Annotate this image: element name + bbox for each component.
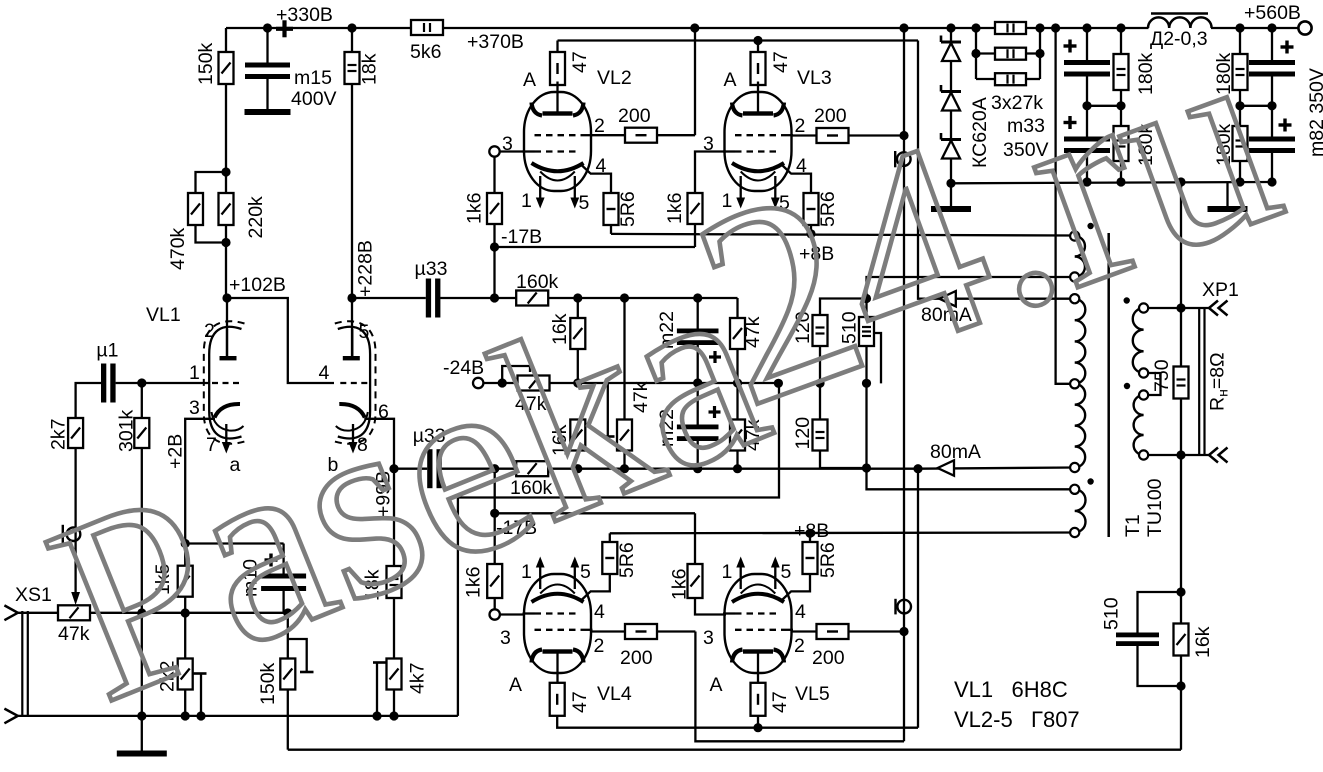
junction at (866.5,298.5): [862, 294, 871, 303]
connector XP1 pin1: [1209, 301, 1228, 316]
junction at (1181,455): [1176, 450, 1185, 459]
pin labels tube VL4 G807: [500, 561, 632, 705]
junction at (1087,182): [1082, 177, 1091, 186]
wire net-B lower: [917, 469, 919, 728]
wire 80mA lower wire: [918, 468, 1075, 469]
wire 47 VL2 top lead: [556, 41, 558, 54]
tap primary top: [1070, 294, 1079, 303]
junction at (820,383.3): [815, 379, 824, 388]
wire 47k-lr: [736, 383, 738, 469]
junction at (1121,28): [1116, 23, 1125, 32]
wire 1k6-VL4 to grid circle: [494, 598, 496, 610]
wire net-A bus: [903, 28, 905, 741]
wire 18k-low to 4k7: [393, 598, 395, 659]
choke D2-0.3: [1148, 14, 1212, 51]
resistor 160k upper: [516, 271, 559, 306]
connector XP1 pin2: [1209, 448, 1228, 463]
svg-text:m82 350V: m82 350V: [1306, 68, 1323, 157]
resistor 160k lower: [510, 461, 553, 499]
wire zener chain: [950, 28, 952, 183]
svg-text:2: 2: [794, 635, 805, 657]
phase dot S1: [1087, 223, 1093, 229]
svg-text:4: 4: [795, 601, 806, 623]
wire VL3 pin2 to 200: [792, 134, 817, 136]
wire m22-up top: [697, 298, 699, 329]
svg-text:VL2: VL2: [597, 67, 632, 89]
label -17V upper: [501, 226, 542, 248]
phase dot sec2: [1124, 383, 1130, 389]
svg-text:VL5: VL5: [795, 683, 830, 705]
wire 47k-h trimmer tap: [502, 366, 530, 383]
wire -17V lower row: [495, 513, 695, 564]
junction at (951,183.3): [946, 179, 955, 188]
resistor 5k6: [410, 20, 443, 63]
junction at (737.5,383): [733, 378, 742, 387]
transformer T1 core: [1107, 233, 1110, 537]
wire VL3 5R6 bottom: [810, 225, 812, 234]
wire S1 return elbow: [867, 277, 1075, 299]
svg-text:3: 3: [500, 627, 511, 649]
wire +8V lower row: [610, 531, 1075, 534]
junction at (976,53.5): [971, 49, 980, 58]
junction at (951,28): [946, 23, 955, 32]
capacitor m22 upper plus: [709, 351, 721, 363]
transformer T1 primary main: [1075, 299, 1086, 468]
wire m82 stack: [1271, 28, 1273, 182]
wire 2k7 bottom / pot wiper shaft: [74, 448, 76, 596]
tap secondary 1a: [1139, 303, 1148, 312]
capacitor u33 upper: [426, 279, 441, 318]
tap S1 bottom: [1070, 272, 1079, 281]
resistor 750: [1151, 359, 1189, 398]
resistor 1k6 VL4: [463, 564, 503, 598]
svg-text:A: A: [509, 674, 522, 696]
resistor 470k: [167, 193, 203, 270]
capacitor m82a plus: [1281, 41, 1294, 54]
svg-text:2: 2: [594, 635, 605, 657]
junction at (810,533.3): [805, 529, 814, 538]
svg-text:VL2-5 Г807: VL2-5 Г807: [954, 707, 1080, 732]
svg-text:5: 5: [579, 192, 590, 214]
resistor 150k: [195, 42, 234, 85]
junction at (811,233.9): [806, 229, 815, 238]
svg-text:1: 1: [722, 561, 733, 583]
wire +102V to grid4: [227, 298, 334, 383]
resistor 5R6 VL4: [602, 542, 638, 578]
pin labels VL1: [146, 304, 389, 476]
resistor 2k2 trim: [157, 659, 193, 693]
terminal VL2 grid: [489, 146, 499, 156]
resistor 27k b: [995, 48, 1026, 60]
resistor 200 VL5: [812, 624, 849, 669]
resistor 18k lower: [362, 566, 402, 601]
svg-text:47: 47: [569, 691, 591, 713]
wire VL4 grid wire: [500, 613, 524, 615]
phase dot sec1: [1124, 297, 1130, 303]
tap primary center: [1070, 379, 1079, 388]
wire m22-low top: [697, 383, 699, 425]
wire feedback bus x=1181: [1180, 182, 1182, 750]
junction at (352,298): [347, 293, 356, 302]
ground m15: [245, 77, 291, 115]
wire m15 lead: [266, 28, 268, 63]
junction at (697.7,298): [693, 293, 702, 302]
wire VL4 5R6 top: [609, 533, 611, 542]
resistor 5R6 VL3: [804, 191, 840, 227]
label m33 350V: [1003, 115, 1049, 161]
svg-text:400V: 400V: [291, 88, 337, 110]
svg-text:XS1: XS1: [15, 584, 52, 606]
wire top rail +330V/+370V: [226, 27, 1305, 29]
zener VD3 KS620A: [941, 133, 961, 159]
svg-text:4: 4: [594, 601, 605, 623]
wire 47k-mid bottom: [623, 451, 625, 469]
wire 120-low top: [819, 383, 821, 419]
junction at (904,28): [899, 23, 908, 32]
connector XS1 pin2: [4, 709, 17, 724]
resistor 47k trim mid: [617, 381, 652, 450]
label +8V upper: [799, 243, 834, 265]
wire 47k-ur top lead: [736, 298, 738, 318]
wire long bottom bus: [288, 749, 1181, 751]
resistor 150k trim: [257, 659, 295, 706]
junction at (904,135.5): [899, 131, 908, 140]
junction at (394,468.7): [389, 464, 398, 473]
resistor 16k lower: [549, 420, 585, 457]
tube VL1 triode b: [335, 321, 376, 453]
junction at (697.7,383): [693, 378, 702, 387]
svg-text:5R6: 5R6: [617, 191, 639, 227]
junction at (141.8,716): [137, 711, 146, 720]
capacitor filter C1b plus: [1064, 116, 1077, 129]
wire XS1 pin1 to pot: [18, 612, 58, 614]
wiper arrowhead: [71, 592, 80, 605]
wire VL4 cathode elbow: [590, 574, 610, 591]
svg-text:510: 510: [1101, 597, 1123, 630]
junction at (267.5,28): [263, 23, 272, 32]
resistor 16k upper: [549, 313, 585, 349]
junction at (141.8,383): [137, 378, 146, 387]
svg-text:+560В: +560В: [1244, 2, 1301, 24]
wire net-B upper: [918, 41, 1075, 299]
svg-text:1k6: 1k6: [464, 193, 486, 224]
terminal -24V: [443, 357, 484, 388]
zener VD2 KS620A: [941, 85, 961, 111]
capacitor u33 lower label: [413, 425, 446, 447]
junction at (494.7,513.3): [490, 509, 499, 518]
svg-text:80mA: 80mA: [930, 441, 981, 463]
wire VL5 47 bottom: [757, 716, 759, 728]
junction at (918,468.7): [913, 464, 922, 473]
resistor 1k6 VL5: [669, 564, 703, 600]
resistor 1k6 VL3: [664, 193, 703, 224]
capacitor m15 plus: [276, 20, 293, 37]
junction at (866.5,468): [862, 463, 871, 472]
capacitor m22 lower: [656, 409, 719, 447]
tap S1 top: [1070, 231, 1079, 240]
svg-text:47: 47: [770, 51, 792, 73]
svg-text:150k: 150k: [195, 42, 217, 85]
net tag Yu input: [63, 525, 80, 544]
junction at (1240,182): [1235, 177, 1244, 186]
label +102V: [229, 274, 286, 296]
wire m22-low bottom: [697, 441, 699, 469]
junction at (1040,53.5): [1035, 49, 1044, 58]
wire secondary bottom out: [1144, 454, 1210, 456]
label KS620A: [969, 97, 991, 168]
wire m10 bottom: [282, 591, 284, 613]
junction at (1121,105.8): [1116, 101, 1125, 110]
label +370V: [467, 31, 524, 53]
resistor 180k c2 up: [1213, 52, 1248, 95]
wire VL5 5R6: [791, 533, 811, 591]
pin labels tube VL3 G807: [703, 67, 832, 214]
tap S4 bottom: [1070, 528, 1079, 537]
svg-text:1: 1: [521, 190, 532, 212]
junction at (502.2,383): [498, 378, 507, 387]
zener VD1 KS620A: [941, 36, 961, 62]
svg-text:+330В: +330В: [276, 4, 333, 26]
svg-text:3: 3: [703, 627, 714, 649]
wire cap mid link 2: [1240, 105, 1272, 107]
wire 510 bottom: [865, 346, 867, 383]
resistor 180k c2 low: [1213, 123, 1248, 166]
resistor 1k6 VL2: [464, 193, 503, 224]
wire 150k-trim bottom to bottom bus: [287, 690, 289, 750]
svg-text:5k6: 5k6: [410, 41, 441, 63]
wire XS1 cable pair: [22, 611, 28, 716]
label +99V: [373, 471, 395, 517]
wire 1k5 to 2k2: [184, 597, 186, 659]
wire VL5 grid wire: [695, 598, 726, 615]
wire m22-up bottom: [697, 345, 699, 383]
resistor 2k7: [48, 418, 84, 450]
junction at (494.7,468.7): [490, 464, 499, 473]
junction at (1272,28): [1267, 23, 1276, 32]
label T1 TU100: [1122, 478, 1166, 537]
wire center tap feed: [1056, 28, 1075, 384]
tube VL2 G807: [523, 82, 593, 209]
wire 2k2 trimmer tap: [194, 674, 207, 716]
svg-text:µ33: µ33: [415, 258, 448, 280]
wire secondary series jog: [1144, 373, 1161, 395]
svg-text:16k: 16k: [1192, 626, 1214, 658]
resistor 220k: [219, 193, 268, 239]
junction at (185.2,716): [181, 711, 190, 720]
wire 18k column (x=352): [351, 28, 353, 298]
resistor 5R6 VL2: [604, 191, 640, 227]
wire +99V node to cap: [394, 468, 427, 470]
wire mid feedback riser: [458, 383, 779, 716]
svg-text:+370В: +370В: [467, 31, 524, 53]
svg-text:A: A: [710, 674, 723, 696]
wire VL2 pin2 to 200: [591, 134, 625, 136]
svg-text:T1: T1: [1122, 514, 1144, 537]
wire VL3 grid wire: [695, 152, 726, 194]
wire 301k bottom to pot node: [141, 448, 143, 613]
svg-text:470k: 470k: [167, 227, 189, 270]
svg-text:5: 5: [781, 561, 792, 583]
wire m10 top row: [185, 544, 283, 574]
junction at (577.8,298): [573, 293, 582, 302]
resistor 47k lower right: [730, 419, 764, 451]
tap S4 top: [1070, 485, 1079, 494]
svg-text:Rн=8Ω: Rн=8Ω: [1207, 352, 1231, 411]
label XP1: [1202, 279, 1239, 301]
junction at (377,716): [372, 711, 381, 720]
label -17V lower: [496, 517, 537, 539]
wire 4k7 trimmer tap: [373, 663, 386, 716]
junction at (352,28): [347, 23, 356, 32]
tube VL3 G807: [723, 82, 793, 209]
label tube types: [954, 677, 1080, 732]
tube VL5 G807: [723, 557, 793, 684]
wire 47 VL3 top lead: [757, 41, 759, 54]
label Rn=8ohm: [1207, 352, 1231, 411]
wire 180k col1: [1120, 28, 1122, 182]
resistor 5R6 VL5: [803, 542, 840, 578]
svg-text:200: 200: [620, 647, 653, 669]
wire VL2 cathode elbow: [590, 174, 611, 193]
resistor 47 VL5: [751, 683, 792, 716]
svg-text:3: 3: [502, 133, 513, 155]
wire anode2 to upper rail: [352, 297, 426, 299]
label +330V: [276, 4, 333, 26]
tap primary bottom: [1070, 463, 1079, 472]
junction at (201,716): [196, 711, 205, 720]
svg-text:A: A: [724, 69, 737, 91]
label +8V lower: [794, 520, 829, 542]
pin labels tube VL2 G807: [502, 67, 632, 214]
svg-text:5R6: 5R6: [817, 542, 839, 578]
capacitor m22 lower plus: [709, 406, 721, 418]
ground PSU right: [1208, 206, 1248, 212]
resistor 47 VL3: [751, 51, 793, 85]
resistor 4k7 trim: [387, 659, 429, 695]
tube VL1 triode a: [204, 321, 245, 453]
wire 16k-up to mid: [577, 349, 579, 383]
connector XS1 pin1: [4, 605, 17, 620]
resistor 47k upper right: [730, 316, 764, 349]
wire VL4/VL5 anode bus: [557, 716, 918, 728]
junction at (624.5,298): [620, 293, 629, 302]
wire second rail to VL2/VL3 anode resistors: [558, 39, 919, 41]
junction at (394,716): [389, 711, 398, 720]
wire VL5 pin2 to 200: [792, 630, 817, 632]
capacitor m10: [240, 559, 307, 597]
svg-text:+228В: +228В: [355, 240, 377, 297]
junction at (1087,28): [1082, 23, 1091, 32]
terminal VL4 grid: [490, 609, 500, 619]
wire S4 top elbow: [867, 468, 1075, 489]
capacitor u1: [101, 364, 116, 403]
resistor 180k c1 up: [1114, 52, 1158, 95]
resistor 510 tapped: [839, 311, 875, 346]
junction at (577.8,383): [573, 378, 582, 387]
label +228V: [355, 240, 377, 297]
capacitor filter C1b: [1064, 137, 1110, 154]
svg-text:VL3: VL3: [797, 67, 832, 89]
svg-text:µ1: µ1: [96, 340, 118, 362]
wire 150k column: [225, 28, 227, 192]
wire lower rail to -17V low: [494, 469, 496, 514]
wire VL2 grid column: [493, 157, 495, 194]
svg-text:VL4: VL4: [597, 683, 632, 705]
wire pot node down to ground: [141, 613, 143, 716]
junction at (866.5,383.3): [862, 379, 871, 388]
junction at (1272,182): [1267, 177, 1276, 186]
junction at (758,40.5): [753, 36, 762, 45]
junction at (904,631.5): [899, 627, 908, 636]
ground main: [117, 716, 167, 757]
capacitor m82b: [1249, 68, 1323, 157]
wire 1k6-VL4 column: [494, 513, 496, 564]
wire VL5 200 output: [849, 630, 904, 632]
wire 510 tap: [873, 333, 881, 383]
wire +8V upper row: [611, 225, 1075, 236]
capacitor 510 bottom: [1101, 597, 1160, 646]
junction at (494.5,298): [490, 293, 499, 302]
capacitor m22 upper: [656, 311, 719, 349]
svg-text:VL1 6Н8С: VL1 6Н8С: [954, 677, 1068, 702]
wire cap mid link 1: [1087, 105, 1121, 107]
svg-text:1: 1: [189, 362, 200, 384]
resistor 47 VL2: [550, 51, 591, 85]
wire mid link 866: [865, 383, 867, 468]
wire 2k7 top elbow: [76, 383, 101, 418]
capacitor u1 label: [96, 340, 118, 362]
label XS1: [15, 584, 52, 606]
junction at (1087,105.8): [1082, 101, 1091, 110]
junction at (778.4,383.3): [774, 379, 783, 388]
resistor 16k bottom: [1174, 624, 1215, 659]
wire 470k jog: [196, 172, 227, 243]
wire mid row -24V: [483, 382, 516, 384]
junction at (185.2,613): [181, 608, 190, 617]
wire cathode2 to +99V node (x=394): [364, 419, 394, 566]
capacitor m82b plus: [1279, 119, 1292, 132]
wire cap stack 1: [1086, 28, 1088, 182]
transformer T1 primary S1: [1075, 236, 1085, 277]
junction at (1055.6,28): [1051, 23, 1060, 32]
junction at (1181,592): [1176, 587, 1185, 596]
wire net-A bottom elbow: [695, 632, 904, 742]
wire VL1 anode1 lead: [226, 298, 228, 357]
svg-text:1k6: 1k6: [669, 569, 691, 600]
wire VL3 200 output: [849, 134, 904, 136]
junction at (976,28): [971, 23, 980, 32]
wire 180k col2: [1239, 28, 1241, 182]
resistor 18k: [345, 52, 381, 85]
wire 301k top: [141, 383, 143, 418]
wire VL3 cathode elbow: [791, 174, 812, 193]
junction at (1181,686): [1176, 681, 1185, 690]
junction at (1040,28): [1035, 23, 1044, 32]
resistor 200 VL4: [620, 624, 657, 669]
svg-text:5: 5: [359, 321, 370, 343]
wire lower rail: [442, 468, 517, 470]
wire 47k-ur bottom: [736, 349, 738, 383]
junction at (1240,28): [1235, 23, 1244, 32]
svg-text:200: 200: [618, 105, 651, 127]
wire 4k7 bottom: [393, 690, 395, 716]
wire 510-br cap leads: [1138, 592, 1182, 686]
junction at (577.8,468.7): [573, 464, 582, 473]
junction at (1272,105.8): [1267, 101, 1276, 110]
junction at (697.7,468.7): [693, 464, 702, 473]
resistor 120 upper: [792, 311, 828, 346]
wire VL2 200 output: [658, 28, 695, 135]
